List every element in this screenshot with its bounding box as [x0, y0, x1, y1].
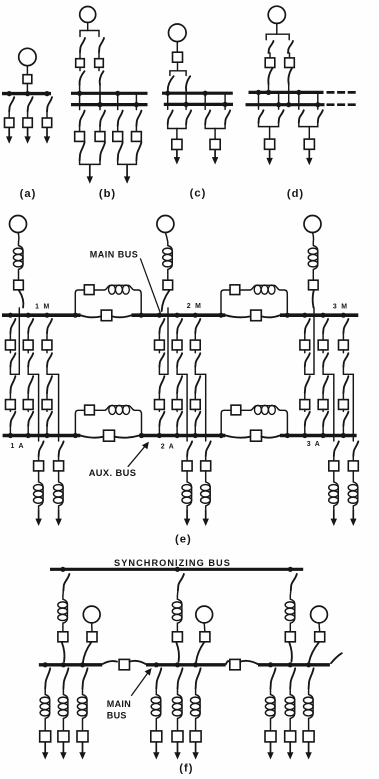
wire 2-1 lower	[158, 393, 160, 400]
feeder arrow F x=270.5	[270, 742, 272, 754]
sync switch R1 lower	[62, 643, 65, 662]
junction main bus 3-2	[321, 313, 326, 318]
disconnect switch Sb3d	[118, 142, 123, 160]
disconnect 1-1-top-b	[10, 353, 15, 367]
disconnect 2-2-low-b	[177, 412, 182, 426]
wire to breaker CBd1	[269, 53, 271, 58]
breaker 3-2-upper	[318, 340, 328, 350]
junction x=100.0	[97, 102, 102, 107]
tie drop 2M-3M	[280, 290, 287, 314]
feeder disconnect F x=45.2	[45, 668, 50, 688]
wire L1-1 to load reactor	[38, 471, 40, 479]
load reactor L1-2	[59, 478, 64, 509]
generator G3	[304, 216, 321, 233]
tie breaker 1M-2M	[84, 285, 94, 295]
load breaker L3-2	[348, 461, 358, 471]
junction tie 1M-2M left	[73, 313, 78, 318]
bus tie stub x=117.7	[117, 93, 119, 109]
wire tie 2M-3M to reactor	[240, 289, 250, 291]
disconnect switch Sb2d	[100, 142, 105, 160]
section (b): double bus double breaker scheme	[71, 7, 148, 201]
junction tie 1A-2A right	[139, 433, 144, 438]
breaker 1-1-lower	[6, 400, 16, 410]
wire Gb to fork	[87, 23, 89, 31]
breaker CBd x=309.3	[304, 139, 314, 149]
tie drop 1A-2A	[135, 410, 142, 434]
generator lead through bus x=314.0	[313, 308, 315, 374]
feeder arrow (b) x=89.8	[89, 164, 91, 178]
breaker CBc x=215.1	[210, 139, 220, 149]
disconnect 1-2-low-b	[28, 412, 33, 426]
wire F x=290.2 to feeder reactor	[289, 689, 291, 691]
load disconnect L3-2	[353, 441, 358, 456]
load arrow L2-2	[205, 509, 207, 520]
junction main bus 2-2	[175, 313, 180, 318]
wire F x=45.2 to feeder reactor	[44, 689, 46, 691]
bypass switch 1A-2A right	[114, 436, 139, 438]
disconnect switch Sb2b	[100, 71, 104, 85]
bypass switch 1M-2M right	[112, 315, 132, 317]
wire reactor X1 to breaker	[18, 273, 20, 280]
bus A	[2, 92, 51, 95]
wire to breaker CBbf3	[117, 126, 119, 132]
main bus 3M	[280, 313, 358, 317]
disconnect switch Sd left x=298.8	[299, 110, 304, 122]
wire F x=308.6 to feeder breaker	[308, 722, 310, 731]
breaker CBb1	[76, 59, 85, 68]
sync disconnect R3	[291, 574, 297, 591]
feeder arrow F x=45.2	[44, 742, 46, 754]
wire Gc to breaker CBc0	[176, 42, 178, 53]
junction tie 2M-3M right	[285, 313, 290, 318]
wire 1-2 upper	[27, 333, 29, 340]
selector bracket (d) x=269.6	[259, 123, 279, 127]
wire F x=156.3 to feeder reactor	[155, 689, 157, 691]
generator disconnect S4	[83, 643, 91, 662]
junction gen left	[266, 90, 271, 95]
wire G5 to breaker	[203, 623, 206, 632]
fork bracket (c)	[170, 71, 186, 76]
wire tie 1M-2M to reactor	[94, 289, 104, 291]
svg-text:(a): (a)	[20, 188, 37, 200]
aux bus 1A	[3, 434, 81, 437]
disconnect switch Sc0b	[186, 76, 190, 90]
disconnect switch Sb1d	[80, 142, 85, 160]
wire to breaker CBb2	[98, 52, 100, 59]
svg-text:AUX. BUS: AUX. BUS	[89, 468, 137, 478]
synchronizing bus	[50, 568, 303, 571]
wire bracket to breaker x=176.9	[176, 129, 178, 140]
breaker 2-3-upper	[190, 340, 200, 350]
wire 2-1 to aux bus	[158, 426, 160, 436]
wire 3-1 upper	[304, 333, 306, 340]
junction x=298.8	[296, 90, 301, 95]
feeder arrow (d) x=269.6	[269, 149, 271, 159]
tie drop 2A-3A	[280, 410, 287, 434]
disconnect switch Sb1c	[80, 111, 85, 126]
disconnect switch Sd1a	[269, 41, 274, 53]
wire 1-1 mid	[9, 350, 11, 353]
wire F x=270.5 to feeder reactor	[270, 689, 272, 691]
generator G1	[10, 216, 27, 233]
generator breaker CB6	[315, 632, 325, 642]
load disconnect L2-1	[187, 441, 192, 456]
wire 1-3 lower	[46, 393, 48, 400]
junction tie 1A-2A left	[73, 433, 78, 438]
fork bracket (b)	[80, 31, 99, 37]
main bus F3	[258, 663, 330, 666]
svg-text:(f): (f)	[179, 763, 193, 775]
disconnect switch Sa2	[28, 97, 33, 111]
wire 1-3 mid	[46, 350, 48, 353]
load breaker L3-1	[329, 461, 339, 471]
svg-text:3 M: 3 M	[333, 303, 349, 310]
disconnect switch Sd1b	[268, 68, 272, 84]
wire Sa2 to breaker CBa2	[27, 112, 29, 119]
svg-text:2 A: 2 A	[161, 444, 175, 451]
disconnect switch Sc right x=225.1	[225, 110, 230, 124]
wire 2-3 lower	[194, 393, 196, 400]
bypass breaker 2M-3M	[251, 310, 262, 321]
wire 1-2 to aux bus	[27, 426, 29, 436]
bus B2	[71, 103, 148, 106]
wire CBc0 to fork	[177, 62, 179, 71]
generator breaker CB4	[87, 632, 97, 642]
feeder breaker F x=195.6	[190, 731, 201, 742]
disconnect 1-1-low-b	[10, 412, 15, 426]
sync reactor R2	[177, 595, 182, 627]
wire 2-2 low mid	[176, 409, 178, 411]
bus D1 dashed extension	[327, 91, 358, 94]
wire 2-2 to aux bus	[176, 426, 178, 436]
load breaker L2-1	[182, 461, 192, 471]
junction x=79.6	[77, 91, 82, 96]
tie reactor 1A-2A	[105, 406, 135, 411]
feeder reactor F x=156.3	[156, 691, 161, 722]
disconnect 2-3-low-b	[195, 412, 200, 426]
disconnect 2-1-low-a	[159, 376, 164, 393]
junction tie 2M-3M left	[218, 313, 223, 318]
wire 3-3 to aux bus	[342, 426, 344, 436]
tie reactor 1M-2M	[104, 285, 134, 290]
feeder arrow F x=195.6	[195, 742, 197, 754]
bypass switch 1A-2A left	[80, 436, 103, 438]
feeder disconnect F x=82.5	[83, 668, 88, 688]
feeder arrow F x=290.2	[289, 742, 291, 754]
wire Sa3 to breaker CBa3	[46, 112, 48, 119]
wire F x=82.5 to feeder reactor	[82, 689, 84, 691]
disconnect 1-3-top-b	[47, 353, 52, 367]
tie riser 1M-2M	[75, 290, 84, 314]
bus selector stub x=167.7	[167, 93, 169, 109]
junction sync bus R2	[175, 567, 180, 572]
transfer bracket 3-3	[343, 367, 353, 375]
breaker CBd x=269.6	[265, 139, 275, 149]
junction main bus 3-3	[341, 313, 346, 318]
disconnect 1-3-top-a	[47, 319, 52, 333]
wire 3-1 low mid	[304, 409, 306, 411]
disconnect 2-1-low-b	[159, 412, 164, 426]
feeder arrow (d) x=309.3	[308, 149, 310, 159]
wire 1-3 upper	[46, 333, 48, 340]
disconnect 2-2-top-b	[177, 353, 182, 367]
wire tie 2A-3A to reactor	[241, 409, 251, 411]
wire R3 to sync reactor	[289, 591, 292, 596]
sync switch R2 lower	[176, 643, 179, 662]
wire R2 to sync breaker	[176, 627, 178, 632]
load lead L3-1 through aux bus	[333, 374, 335, 441]
wire 3-2 lower	[322, 393, 324, 400]
bus selector stub x=298.8	[298, 92, 300, 109]
feeder breaker F x=82.5	[77, 731, 88, 742]
breaker 2-3-lower	[190, 400, 200, 410]
wire to breaker CBbf1	[79, 126, 81, 132]
load lead L1-1 through aux bus	[38, 374, 40, 441]
junction tie 2A-3A left	[219, 433, 224, 438]
generator G5	[196, 606, 213, 623]
wire F x=290.2 to feeder breaker	[289, 722, 291, 731]
junction aux bus 3-1	[302, 433, 307, 438]
wire 1-1 lower	[9, 393, 11, 400]
breaker 2-1-upper	[155, 340, 165, 350]
wire 2-1 upper	[158, 333, 160, 340]
bus selector stub x=225.1	[224, 93, 226, 109]
disconnect switch Sa1	[9, 97, 14, 111]
load reactor L2-1	[187, 478, 192, 509]
section (e): sectionalized main and auxiliary bus with tie reactors	[2, 216, 358, 546]
bus tie switch F1-F2 left	[103, 661, 117, 664]
disconnect switch Sc0a	[168, 76, 174, 90]
feeder arrow (a)2	[27, 127, 29, 138]
bus selector stub x=317.8	[317, 92, 319, 109]
bus selector stub x=278.6	[278, 92, 280, 109]
svg-text:MAIN: MAIN	[107, 699, 131, 709]
sync switch R3 lower	[289, 643, 292, 662]
feeder arrow F x=177.5	[177, 742, 179, 754]
disconnect switch Sb2a	[99, 38, 104, 52]
feeder arrow (a)3	[46, 127, 48, 138]
wire Sd2b to bus	[288, 84, 290, 105]
wire G4 to breaker	[91, 623, 93, 632]
wire L2-1 to load breaker	[186, 456, 188, 461]
transfer bracket 2-3	[195, 367, 205, 375]
feeder disconnect F x=308.6	[309, 668, 314, 688]
feeder breaker F x=63.4	[58, 731, 69, 742]
transfer bracket 2-2	[177, 367, 187, 375]
wire 3-2 low mid	[322, 409, 324, 411]
feeder arrow F x=308.6	[308, 742, 310, 754]
wire F x=195.6 to feeder reactor	[195, 689, 197, 691]
junction sync bus R3	[288, 567, 293, 572]
breaker CBa0	[23, 75, 32, 84]
wire Sb2b to bus	[99, 85, 101, 105]
generator reactor X3	[313, 242, 318, 273]
tie riser 2M-3M	[221, 290, 230, 314]
disconnect 3-2-top-a	[323, 319, 328, 333]
generator lead through bus x=168.0	[167, 308, 169, 374]
svg-text:BUS: BUS	[107, 710, 127, 720]
bus tie stub x=79.6	[79, 93, 81, 109]
generator G4	[83, 606, 100, 623]
generator disconnect S6	[309, 643, 319, 662]
wire reactor X3 to breaker	[312, 273, 314, 280]
wire to breaker CBbf4	[135, 126, 137, 132]
wire 3-2 to aux bus	[322, 426, 324, 436]
disconnect 3-2-low-b	[323, 412, 328, 426]
sync breaker R2	[172, 632, 182, 642]
feeder merge bracket (b) x=127.1	[118, 160, 137, 164]
bus tie switch F2-F3 left	[226, 661, 229, 664]
wire bracket to breaker x=269.6	[269, 127, 271, 140]
disconnect switch Sb4d	[136, 142, 141, 160]
feeder disconnect F x=63.4	[63, 668, 68, 688]
sync breaker R1	[58, 632, 68, 642]
load breaker L1-1	[34, 461, 44, 471]
svg-text:3 A: 3 A	[307, 441, 321, 448]
disconnect 3-3-top-a	[343, 319, 348, 333]
wire L3-2 to load reactor	[352, 471, 354, 479]
bypass breaker 1A-2A	[104, 430, 115, 441]
transfer bracket 3-2	[323, 367, 334, 375]
bypass breaker 1M-2M	[101, 310, 112, 321]
wire 1-1 to aux bus	[9, 426, 11, 436]
generator reactor X1	[19, 242, 24, 273]
wire G3 to reactor	[313, 233, 314, 243]
load disconnect L2-2	[206, 441, 211, 456]
generator disconnect S2	[162, 291, 170, 312]
disconnect 2-2-low-a	[177, 376, 182, 393]
junction bus A feeder 2	[25, 91, 30, 96]
generator Ga	[19, 48, 36, 65]
svg-text:1 A: 1 A	[11, 443, 25, 450]
wire 3-3 mid	[342, 350, 344, 353]
transfer bracket 1-2	[28, 367, 38, 375]
generator G2	[157, 216, 174, 233]
right end disconnect	[331, 653, 342, 663]
disconnect switch Sa3	[47, 97, 52, 111]
feeder arrow F x=63.4	[62, 742, 64, 754]
junction main bus F x=290.2	[288, 662, 293, 667]
disconnect switch Sc right x=186.1	[186, 110, 191, 124]
wire F x=156.3 to feeder breaker	[155, 722, 157, 731]
main bus F1	[39, 663, 102, 666]
disconnect 1-2-top-b	[28, 353, 33, 367]
load arrow L2-1	[186, 509, 188, 520]
breaker CBb2	[95, 59, 104, 68]
bus tie stub x=136.4	[135, 93, 137, 109]
bus tie breaker F1-F2	[119, 659, 129, 669]
bus tie switch F2-F3 right	[240, 661, 257, 664]
disconnect switch Sc left x=167.7	[168, 110, 173, 124]
wire below CBb2	[98, 67, 100, 70]
svg-text:SYNCHRONIZING BUS: SYNCHRONIZING BUS	[114, 558, 231, 568]
svg-text:(c): (c)	[190, 188, 207, 200]
svg-text:(e): (e)	[175, 534, 192, 546]
bus selector stub x=186.1	[185, 91, 187, 109]
section (d): double bus scheme with future extension	[246, 6, 358, 200]
wire Sb1b to bus	[79, 85, 81, 94]
wire 3-1 lower	[304, 393, 306, 400]
bypass switch 1M-2M left	[81, 315, 102, 317]
junction main bus 1-1	[8, 313, 13, 318]
generator breaker CB2	[163, 280, 173, 290]
breaker 2-2-upper	[172, 340, 182, 350]
generator Gd	[268, 6, 285, 23]
breaker 3-3-lower	[339, 400, 349, 410]
generator G6	[311, 606, 328, 623]
breaker CBbf1	[75, 132, 85, 142]
breaker CBbf2	[95, 132, 105, 142]
junction tie 1M-2M right	[139, 313, 144, 318]
tie breaker 2M-3M	[230, 285, 240, 295]
breaker 3-3-upper	[339, 340, 349, 350]
wire G2 to reactor	[165, 233, 167, 243]
feeder reactor F x=195.6	[196, 691, 201, 722]
feeder arrow (c) x=215.1	[214, 150, 216, 159]
disconnect switch Sb4c	[136, 111, 141, 126]
junction tie 2A-3A right	[285, 433, 290, 438]
transfer bracket 3-1	[305, 367, 314, 375]
disconnect switch Sd2a	[288, 41, 293, 53]
junction x=136.4	[134, 102, 139, 107]
feeder disconnect F x=195.6	[196, 668, 201, 688]
feeder breaker F x=177.5	[172, 731, 183, 742]
wire to breaker CBd2	[289, 53, 291, 58]
disconnect 1-2-top-a	[28, 319, 33, 333]
disconnect 1-3-low-b	[47, 412, 52, 426]
wire L1-2 to load breaker	[58, 456, 60, 461]
wire L3-2 to load breaker	[352, 456, 354, 461]
generator disconnect S5	[196, 643, 204, 662]
wire 1-2 low mid	[27, 409, 29, 411]
junction x=117.7	[115, 91, 120, 96]
aux bus 3A	[280, 434, 357, 437]
selector bracket (d) x=309.3	[299, 123, 318, 127]
wire 2-3 mid	[194, 350, 196, 353]
wire 2-2 lower	[176, 393, 178, 400]
wire 3-1 to aux bus	[304, 426, 306, 436]
disconnect switch Sd right x=278.6	[279, 110, 284, 122]
feeder disconnect F x=270.5	[271, 668, 276, 688]
wire 2-3 to aux bus	[194, 426, 196, 436]
feeder arrow (c) x=176.9	[176, 150, 178, 159]
feeder reactor F x=270.5	[271, 691, 276, 722]
feeder reactor F x=177.5	[178, 691, 183, 722]
feeder reactor F x=82.5	[83, 691, 88, 722]
load lead L1-2 through aux bus	[58, 374, 60, 441]
tie reactor 2M-3M	[250, 285, 280, 290]
feeder breaker F x=45.2	[40, 731, 51, 742]
wire F x=195.6 to feeder breaker	[195, 722, 197, 731]
wire 1-2 mid	[27, 350, 29, 353]
wire Gd to fork	[276, 23, 278, 34]
bus selector stub x=205.2	[204, 93, 206, 109]
disconnect switch Sb3c	[118, 111, 123, 126]
main bus pointer line	[141, 259, 161, 313]
feeder reactor F x=308.6	[309, 691, 314, 722]
feeder breaker F x=156.3	[151, 731, 162, 742]
main bus pointer arrow (f)	[131, 671, 149, 696]
wire L2-2 to load reactor	[205, 471, 207, 479]
disconnect 3-3-low-a	[343, 376, 348, 393]
junction main bus F x=195.6	[193, 662, 198, 667]
bus B1	[71, 92, 148, 95]
sync reactor R3	[290, 595, 295, 627]
bus tie stub x=100.0	[99, 93, 101, 109]
transfer bracket 1-1	[10, 367, 19, 375]
wire F x=63.4 to feeder reactor	[62, 689, 64, 691]
load reactor L3-1	[334, 478, 339, 509]
